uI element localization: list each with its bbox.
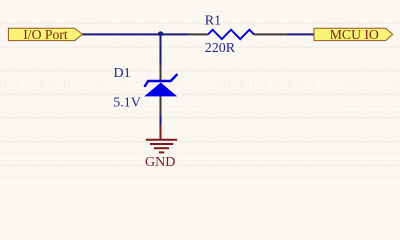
wire from I/O Port to R1 left pin	[82, 33, 188, 35]
svg-text:R1: R1	[205, 14, 221, 29]
port I/O Port	[8, 27, 82, 42]
resistor R1	[188, 30, 288, 39]
value label 220R	[205, 41, 236, 56]
designator label D1	[114, 66, 131, 81]
svg-text:GND: GND	[145, 155, 175, 170]
value label 5.1V	[113, 96, 141, 111]
svg-text:MCU IO: MCU IO	[330, 27, 379, 42]
junction dot	[158, 31, 163, 36]
ground power port GND	[146, 125, 177, 152]
net label GND	[145, 155, 175, 170]
wire from D1 anode to GND	[160, 115, 162, 126]
svg-text:D1: D1	[114, 66, 131, 81]
port MCU IO	[314, 27, 393, 42]
svg-text:5.1V: 5.1V	[113, 96, 141, 111]
svg-text:220R: 220R	[205, 41, 236, 56]
wire from R1 right pin to MCU IO port	[287, 33, 315, 35]
designator label R1	[205, 14, 221, 29]
zener diode D1	[144, 65, 177, 115]
svg-text:I/O Port: I/O Port	[23, 27, 68, 42]
wire from junction down to D1	[160, 34, 162, 65]
